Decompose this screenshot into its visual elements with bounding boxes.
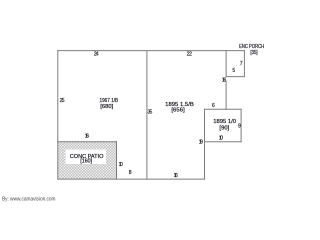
svg-text:6: 6	[212, 103, 215, 109]
wall: right edge below box (19)	[204, 109, 206, 179]
wall: right edge of 1.5/B upper segment (16) above label	[225, 51, 227, 77]
svg-text:16: 16	[85, 134, 89, 140]
wall: left edge (25) incl patio left	[57, 51, 59, 180]
svg-text:[90]: [90]	[219, 126, 229, 132]
svg-text:24: 24	[94, 52, 99, 58]
svg-text:[656]: [656]	[171, 108, 185, 114]
svg-text:10: 10	[219, 136, 223, 142]
enc porch right edge (7)	[243, 51, 245, 77]
wall: 1895 1/0 box bottom edge (10)	[205, 141, 242, 143]
wall: 1895 1/0 box right edge (9)	[240, 109, 242, 142]
enc porch bottom edge (5)	[226, 76, 244, 78]
svg-text:16: 16	[174, 173, 178, 179]
wall: interior divider (35)	[146, 51, 148, 180]
svg-text:9: 9	[238, 124, 241, 130]
wall: top edge of building and enc porch	[58, 50, 245, 52]
svg-text:[160]: [160]	[80, 159, 92, 165]
svg-text:7: 7	[240, 61, 243, 67]
svg-text:19: 19	[199, 140, 203, 146]
patio right edge (10)	[116, 142, 118, 179]
white box behind patio label	[66, 150, 107, 165]
svg-text:16: 16	[222, 78, 226, 84]
svg-text:1895 1/0: 1895 1/0	[213, 119, 236, 125]
wall: 1895 1/0 box top edge (6)	[205, 108, 242, 110]
svg-text:22: 22	[187, 52, 192, 58]
patio top edge (16)	[58, 141, 117, 143]
svg-text:35: 35	[148, 109, 153, 115]
svg-text:10: 10	[119, 162, 123, 168]
svg-text:By: www.camavision.com: By: www.camavision.com	[2, 196, 56, 202]
svg-text:[680]: [680]	[100, 104, 113, 110]
svg-text:5: 5	[232, 68, 235, 74]
wall: bottom edge	[58, 178, 205, 180]
svg-text:25: 25	[60, 98, 65, 104]
svg-text:8: 8	[129, 170, 132, 176]
svg-text:[35]: [35]	[250, 50, 258, 56]
conc patio hatched fill	[58, 142, 116, 179]
wall: right edge of 1.5/B lower segment (16) below label	[225, 81, 227, 109]
